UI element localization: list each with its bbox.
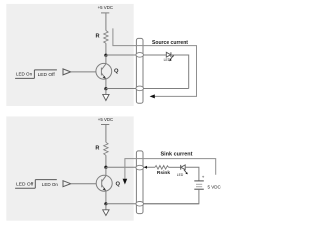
svg-text:LED On: LED On [16, 71, 33, 76]
wire resistor to collector node (top) [105, 43, 107, 55]
waveform LED Off / LED On (bottom) [15, 180, 58, 189]
current arrow (top, pointing left) [150, 94, 155, 98]
node collector junction (bottom) [104, 166, 107, 169]
battery 5 VDC [194, 181, 204, 189]
contact pin 2 (top) [136, 86, 144, 91]
resistor R (top) [104, 31, 108, 44]
wire through connector row2 (top) [136, 88, 188, 90]
wire LED to battery (bottom) [185, 167, 199, 181]
indicator wire across connector (top) [136, 45, 144, 47]
panel background (top figure) [6, 4, 133, 106]
resistor R (bottom) [104, 142, 108, 155]
panel background (bottom figure) [6, 116, 133, 220]
wire through connector row2 (bottom) [136, 203, 199, 205]
ground (top) [103, 94, 109, 100]
svg-text:LED: LED [164, 58, 171, 62]
current indicator line (bottom) [125, 159, 216, 179]
power rail +5 VDC (bottom) [101, 125, 109, 143]
svg-text:Q: Q [116, 181, 121, 187]
svg-text:Source current: Source current [152, 40, 188, 46]
sink current arrowhead into connector [144, 166, 147, 169]
wire emitter node to connector contact 2 (bottom) [106, 203, 144, 205]
wire node to connector contact 1 (bottom) [106, 166, 144, 168]
svg-text:LED Off: LED Off [38, 72, 56, 77]
waveform LED On / LED Off (top) [15, 70, 57, 79]
svg-text:LED: LED [177, 173, 184, 177]
wire LED to right edge and back to contact 2 (top) [171, 55, 188, 89]
indicator wire across connector (bottom) [136, 158, 144, 160]
node emitter junction (top) [104, 87, 107, 90]
LED D1 (top) [166, 52, 174, 61]
wire buffer to base (top) [71, 71, 96, 73]
wire emitter node to connector contact 2 (top) [106, 88, 144, 90]
current indicator loop (top) [113, 28, 197, 96]
buffer driver (top) [63, 69, 71, 75]
node emitter junction (bottom) [104, 202, 107, 205]
ground (bottom) [103, 210, 109, 216]
wire Rsink to LED (bottom) [169, 166, 181, 168]
svg-text:5 VDC: 5 VDC [208, 184, 222, 189]
emitter arrowhead of Q (top) [103, 76, 106, 79]
transistor Q (bottom) [96, 167, 112, 204]
svg-text:R: R [95, 146, 99, 152]
wire node to connector contact 1 (top) [106, 54, 144, 56]
transistor Q (top) [96, 55, 112, 89]
connector J1 (bottom) [136, 151, 143, 214]
resistor Rsink [155, 166, 169, 170]
svg-text:+: + [202, 175, 205, 180]
svg-text:+5 VDC: +5 VDC [98, 117, 114, 122]
svg-text:Q: Q [114, 68, 119, 74]
node collector junction (top) [104, 54, 107, 57]
current arrow (bottom, pointing down) [123, 179, 128, 185]
LED D2 (bottom, pointing left) [181, 165, 188, 174]
wire through connector row1 (top) [136, 54, 166, 56]
svg-text:+5 VDC: +5 VDC [98, 5, 114, 10]
contact pin 1 (top) [136, 53, 144, 58]
wire emitter node to ground (top) [105, 89, 107, 95]
buffer driver (bottom) [63, 181, 71, 187]
power rail +5 VDC (top) [101, 13, 109, 31]
contact pin 1 (bottom) [136, 165, 144, 170]
wire buffer to base (bottom) [71, 183, 97, 185]
svg-text:R: R [95, 34, 99, 40]
wire emitter node to ground (bottom) [105, 204, 107, 210]
wire battery negative to connector contact 2 (bottom) [144, 189, 199, 204]
emitter arrowhead of Q (bottom) [103, 188, 106, 191]
connector J1 (top) [136, 38, 143, 103]
wire resistor to collector node (bottom) [105, 155, 107, 167]
svg-text:Sink current: Sink current [161, 151, 193, 157]
svg-text:LED On: LED On [42, 182, 59, 187]
svg-text:Rsink: Rsink [157, 170, 171, 175]
svg-text:LED Off: LED Off [16, 181, 34, 186]
contact pin 2 (bottom) [136, 202, 144, 207]
wire through connector row1 (bottom) [136, 166, 155, 168]
